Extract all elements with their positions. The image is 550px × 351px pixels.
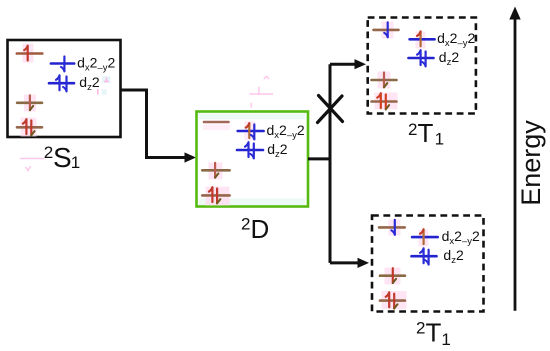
- glow level D lower T box: [385, 268, 401, 285]
- level D line (2S1 box): [17, 102, 42, 105]
- branch arrow to upper 2T1: [330, 63, 357, 66]
- glow under bare line: [203, 125, 230, 131]
- svg-text:2: 2: [408, 120, 417, 139]
- glow level E 2D box: [206, 187, 230, 206]
- level D spin-down electron (lower 2T1): [392, 268, 394, 283]
- glow level E upper T box: [375, 93, 398, 110]
- level dz2 line (2S1 box): [49, 82, 74, 85]
- box upper 2T1 state (dashed): [368, 18, 476, 114]
- level E paired electrons (lower 2T1): [386, 292, 390, 307]
- level E paired electrons (upper 2T1): [377, 93, 381, 108]
- tint band bottom inside 2D box: [199, 199, 305, 206]
- box 2D state: [197, 112, 309, 207]
- dz2 paired electrons (2D box): [245, 142, 249, 157]
- level D line (upper 2T1): [372, 79, 397, 82]
- glow level E lower T box: [382, 291, 407, 309]
- level A spin-down electron blue (lower 2T1): [394, 220, 396, 235]
- svg-text:2: 2: [44, 143, 53, 162]
- ghost arrow above 2D box: [249, 76, 273, 107]
- level dx2-y2 line (lower 2T1): [412, 236, 438, 239]
- level E line (2S1 box): [17, 126, 42, 129]
- branch arrow to lower 2T1: [330, 261, 360, 264]
- svg-text:1: 1: [71, 153, 80, 172]
- level dx2-y2 line (2D box): [238, 130, 264, 133]
- X forbidden mark: [318, 96, 343, 123]
- level D spin-down electron (2D box): [214, 163, 216, 178]
- glow level D 2S1 box: [24, 95, 36, 112]
- dz2 paired electrons (lower 2T1): [420, 248, 424, 263]
- level E paired electrons (2D box): [209, 187, 213, 202]
- svg-text:2: 2: [241, 215, 250, 234]
- svg-text:T: T: [426, 318, 442, 348]
- energy axis line: [514, 17, 517, 311]
- box lower 2T1 state (dashed): [372, 216, 484, 312]
- level dz2 line (upper 2T1): [409, 57, 434, 60]
- glow dx2-y2 2D box: [245, 122, 256, 141]
- level dx2-y2 line (upper 2T1): [410, 38, 435, 41]
- glow level D upper T box: [378, 72, 391, 89]
- glow dx2-y2 upper T box: [416, 32, 426, 49]
- connector arrow 2S1 to 2D: [121, 90, 187, 158]
- level E line (upper 2T1): [372, 100, 397, 103]
- level E line (lower 2T1): [380, 299, 405, 302]
- dx2-y2 spin-down electron: [63, 57, 65, 72]
- ghost mark below dz2 label: [102, 89, 107, 95]
- level A spin-up electron: [24, 46, 28, 61]
- tint band top inside 2D box: [199, 114, 305, 120]
- level A line (lower 2T1): [379, 226, 405, 229]
- svg-text:Energy: Energy: [516, 120, 546, 206]
- glow level A 2S1 box: [23, 44, 34, 63]
- glow level A lower T box: [389, 220, 401, 236]
- level E line (2D box): [202, 194, 229, 197]
- level A spin-down electron blue (upper 2T1): [387, 22, 389, 37]
- glow level D 2D box: [209, 163, 223, 180]
- dx2-y2 spin-up electron (upper 2T1): [417, 32, 421, 47]
- level dz2 line (2D box): [237, 149, 263, 152]
- level E paired electrons: [23, 119, 27, 134]
- level D line (2D box): [202, 169, 229, 172]
- box 2S1 state: [8, 40, 121, 137]
- glow level A upper T box: [382, 22, 394, 39]
- dx2-y2 spin-up electron (lower 2T1): [420, 229, 424, 244]
- svg-text:D: D: [251, 214, 270, 244]
- svg-text:T: T: [418, 118, 434, 148]
- level A line (upper 2T1): [374, 29, 399, 32]
- svg-text:2: 2: [416, 319, 425, 338]
- dx2-y2 paired electrons (2D box): [246, 123, 250, 138]
- level dx2-y2 line (2S1 box): [51, 62, 74, 65]
- level D line (lower 2T1): [380, 274, 405, 277]
- svg-text:1: 1: [435, 130, 444, 149]
- level A line (2S1 box): [17, 52, 43, 55]
- level dz2 line (lower 2T1): [412, 255, 437, 258]
- glow level E 2S1 box: [21, 118, 37, 137]
- ghost marks near 2S1 label: [20, 159, 44, 171]
- ghost mark right of dx2-y2 label: [102, 76, 111, 83]
- dz2 paired electrons (upper 2T1): [417, 50, 421, 65]
- dz2 paired electrons (2S1 box): [56, 75, 60, 90]
- level D spin-down electron: [29, 95, 31, 110]
- glow dx2-y2 lower T box: [419, 230, 429, 247]
- level A bare line (2D box): [204, 121, 229, 124]
- level D spin-down electron (upper 2T1): [383, 73, 385, 88]
- branch connector trunk: [308, 64, 330, 263]
- svg-text:S: S: [53, 142, 72, 173]
- svg-text:1: 1: [441, 330, 450, 349]
- energy axis arrowhead: [509, 7, 520, 20]
